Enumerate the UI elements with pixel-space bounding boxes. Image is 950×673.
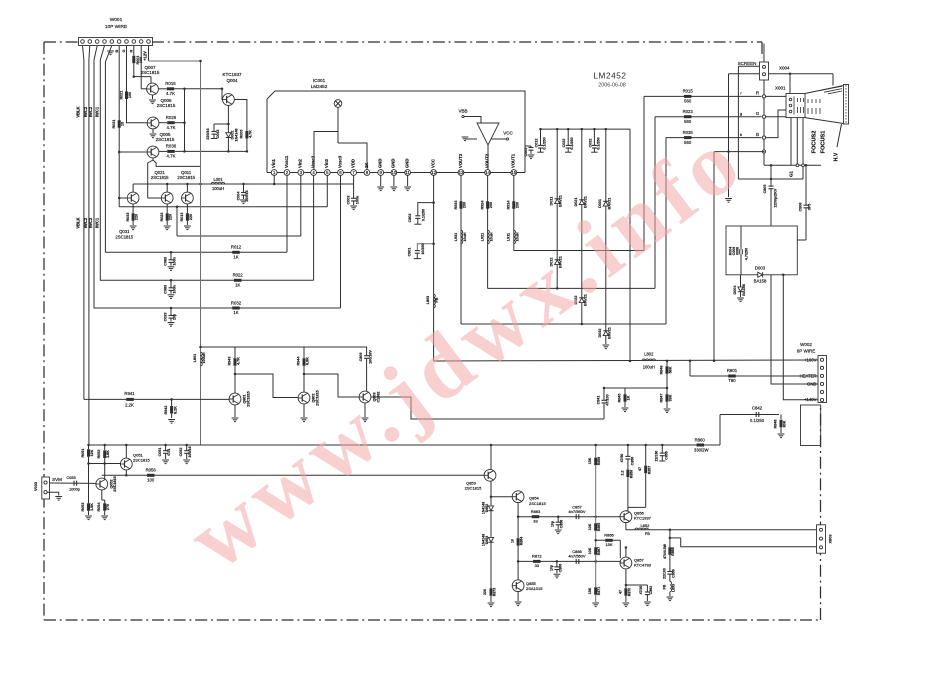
svg-text:10P WIRE: 10P WIRE — [105, 24, 127, 30]
svg-text:X803: X803 — [828, 534, 833, 544]
svg-text:220: 220 — [169, 214, 173, 220]
svg-text:IWC1: IWC1 — [95, 217, 100, 228]
svg-text:47/20: 47/20 — [639, 586, 643, 595]
svg-text:Q854: Q854 — [529, 496, 540, 501]
svg-text:R846: R846 — [660, 366, 664, 375]
svg-text:R873: R873 — [493, 588, 497, 596]
svg-text:10p: 10p — [551, 521, 555, 527]
svg-text:SVM: SVM — [52, 477, 62, 482]
svg-text:47/100: 47/100 — [606, 394, 610, 405]
svg-text:2.2: 2.2 — [620, 471, 624, 476]
svg-text:100: 100 — [128, 92, 132, 98]
svg-text:100uH: 100uH — [202, 352, 206, 363]
svg-text:R021: R021 — [120, 91, 124, 100]
svg-text:GND: GND — [807, 382, 816, 387]
svg-text:47/50: 47/50 — [620, 454, 624, 463]
svg-text:R924: R924 — [480, 200, 484, 210]
svg-text:L801: L801 — [193, 354, 197, 362]
svg-text:R865: R865 — [597, 523, 601, 531]
svg-text:C805: C805 — [763, 185, 767, 194]
svg-text:C809: C809 — [359, 353, 363, 362]
svg-text:470/0.5W: 470/0.5W — [663, 543, 667, 559]
svg-text:1N4148: 1N4148 — [234, 129, 238, 142]
svg-text:T80: T80 — [728, 378, 736, 383]
svg-text:10uH: 10uH — [516, 232, 520, 241]
svg-text:220: 220 — [189, 214, 193, 220]
svg-text:33: 33 — [533, 519, 538, 524]
svg-text:C801: C801 — [408, 248, 412, 257]
svg-text:220: 220 — [135, 214, 139, 220]
svg-text:4n7/560V: 4n7/560V — [568, 554, 585, 559]
svg-text:C022: C022 — [562, 139, 566, 148]
svg-text:C806: C806 — [799, 203, 803, 212]
svg-text:4.7K: 4.7K — [248, 130, 252, 138]
svg-text:15: 15 — [511, 170, 516, 175]
svg-text:BA158: BA158 — [754, 279, 767, 284]
svg-text:560: 560 — [684, 99, 692, 104]
svg-text:G: G — [122, 49, 126, 52]
svg-text:2SC1815: 2SC1815 — [157, 103, 176, 108]
svg-text:VBLK: VBLK — [76, 217, 81, 228]
svg-text:R031: R031 — [112, 120, 116, 129]
svg-text:8.2K: 8.2K — [173, 406, 177, 414]
svg-text:0068: 0068 — [735, 247, 739, 255]
svg-text:C043: C043 — [216, 130, 220, 139]
svg-text:R934: R934 — [454, 200, 458, 210]
svg-text:L852: L852 — [640, 523, 650, 528]
svg-text:Vin1: Vin1 — [271, 158, 276, 168]
svg-text:C842: C842 — [752, 406, 763, 411]
svg-text:10: 10 — [392, 170, 397, 175]
svg-text:6P WIRE: 6P WIRE — [797, 349, 815, 354]
svg-text:R052: R052 — [97, 450, 101, 459]
svg-text:L803: L803 — [426, 296, 430, 304]
svg-text:R023: R023 — [683, 109, 694, 114]
svg-text:X004: X004 — [779, 66, 790, 71]
svg-text:2SC1815: 2SC1815 — [113, 476, 117, 491]
svg-text:BAV21: BAV21 — [559, 195, 563, 207]
svg-text:2006-06-08: 2006-06-08 — [598, 83, 626, 89]
svg-text:0.1/250: 0.1/250 — [422, 209, 426, 221]
svg-text:R033: R033 — [126, 213, 130, 222]
svg-text:C053: C053 — [66, 475, 75, 480]
svg-text:Vosc3: Vosc3 — [337, 155, 342, 168]
svg-text:1K: 1K — [235, 282, 240, 287]
svg-text:10uH: 10uH — [489, 232, 493, 241]
svg-text:D032: D032 — [598, 329, 602, 338]
svg-text:R022: R022 — [233, 273, 244, 278]
svg-text:C841: C841 — [596, 396, 600, 405]
svg-text:R848: R848 — [773, 420, 777, 429]
svg-text:R023: R023 — [160, 213, 164, 222]
svg-text:Vin2: Vin2 — [298, 158, 303, 168]
svg-text:R845: R845 — [618, 394, 622, 403]
svg-text:BA158: BA158 — [742, 284, 746, 295]
svg-text:C855: C855 — [664, 451, 668, 459]
svg-text:2SC1815: 2SC1815 — [151, 175, 169, 180]
svg-text:12: 12 — [431, 170, 436, 175]
svg-text:100n: 100n — [173, 284, 177, 293]
svg-text:4.7/250: 4.7/250 — [745, 248, 749, 260]
svg-text:12K: 12K — [90, 449, 94, 456]
svg-text:R005: R005 — [239, 130, 243, 139]
svg-text:22/100: 22/100 — [662, 568, 666, 579]
svg-text:2200p/2KV: 2200p/2KV — [773, 188, 777, 207]
svg-text:D011: D011 — [550, 197, 554, 206]
svg-text:X001: X001 — [775, 86, 786, 91]
svg-text:2SC1815: 2SC1815 — [156, 137, 175, 142]
svg-text:C012: C012 — [535, 139, 539, 148]
svg-text:Q031: Q031 — [119, 229, 130, 234]
svg-text:2SC1815: 2SC1815 — [465, 486, 482, 491]
svg-text:R858: R858 — [629, 470, 633, 478]
svg-text:15K: 15K — [588, 587, 592, 594]
svg-text:C032: C032 — [588, 139, 592, 148]
svg-text:R944: R944 — [297, 356, 301, 366]
svg-text:FOCUS2: FOCUS2 — [812, 131, 818, 154]
svg-text:R015: R015 — [683, 89, 694, 94]
svg-text:R026: R026 — [166, 115, 177, 120]
svg-text:GND: GND — [391, 159, 396, 168]
svg-text:BAV21: BAV21 — [607, 327, 611, 339]
svg-text:330/2W: 330/2W — [694, 447, 709, 452]
svg-text:C004: C004 — [237, 191, 241, 201]
svg-text:D004: D004 — [733, 285, 737, 295]
svg-text:10p: 10p — [173, 313, 177, 320]
svg-text:1000p: 1000p — [69, 486, 80, 491]
svg-text:15K: 15K — [605, 542, 612, 547]
svg-text:L921: L921 — [480, 233, 484, 241]
svg-text:GND: GND — [378, 159, 383, 168]
svg-text:10uH: 10uH — [463, 232, 467, 241]
svg-text:C856: C856 — [630, 457, 634, 465]
svg-text:Q004: Q004 — [226, 78, 238, 83]
svg-text:10K: 10K — [588, 547, 592, 554]
svg-text:Vosc2: Vosc2 — [310, 155, 315, 168]
svg-text:R872: R872 — [532, 554, 542, 559]
svg-text:47: 47 — [638, 467, 642, 471]
svg-text:C866: C866 — [558, 564, 562, 572]
svg-text:L853: L853 — [672, 584, 676, 592]
svg-text:H.V: H.V — [834, 152, 840, 161]
svg-text:270: 270 — [106, 504, 110, 510]
svg-text:4.7K: 4.7K — [167, 154, 176, 159]
svg-text:C033: C033 — [164, 313, 168, 322]
svg-text:100n: 100n — [355, 195, 359, 204]
svg-text:GND: GND — [404, 159, 409, 168]
svg-text:33K: 33K — [669, 394, 673, 401]
svg-text:VOUT1: VOUT1 — [511, 153, 516, 168]
svg-text:R942: R942 — [164, 406, 168, 415]
svg-text:+140V: +140V — [804, 397, 817, 402]
svg-text:KTC1937: KTC1937 — [222, 72, 242, 77]
svg-text:3P5: 3P5 — [808, 204, 812, 211]
svg-text:1K: 1K — [233, 254, 238, 259]
svg-text:L001: L001 — [213, 177, 223, 182]
svg-text:0.1/250: 0.1/250 — [570, 137, 574, 149]
svg-text:220/16: 220/16 — [206, 128, 210, 139]
svg-text:IWC2: IWC2 — [88, 217, 93, 228]
svg-text:g: g — [740, 111, 742, 116]
svg-text:2SC1815: 2SC1815 — [115, 235, 133, 240]
svg-text:0.01: 0.01 — [167, 448, 171, 455]
svg-text:R054: R054 — [97, 502, 101, 512]
svg-text:B: B — [115, 49, 119, 52]
svg-text:VCC: VCC — [503, 131, 513, 136]
svg-text:R943: R943 — [228, 357, 232, 366]
svg-text:KTC1937: KTC1937 — [634, 516, 652, 521]
svg-text:SCREEN: SCREEN — [738, 61, 757, 66]
svg-text:R863: R863 — [531, 509, 541, 514]
svg-text:VBB: VBB — [458, 109, 467, 114]
svg-text:D003: D003 — [755, 266, 766, 271]
svg-text:100/16: 100/16 — [188, 446, 192, 457]
svg-text:R867: R867 — [597, 547, 601, 555]
svg-text:C052: C052 — [179, 448, 183, 457]
svg-text:4.7K: 4.7K — [166, 91, 175, 96]
svg-text:1K: 1K — [233, 310, 238, 315]
svg-text:4.7K: 4.7K — [167, 125, 176, 130]
svg-text:R053: R053 — [81, 503, 85, 512]
svg-text:IWC1: IWC1 — [95, 106, 100, 117]
svg-text:R857: R857 — [648, 466, 652, 474]
svg-text:LM2452: LM2452 — [311, 84, 328, 89]
svg-text:L931: L931 — [454, 233, 458, 241]
svg-text:0.1/250: 0.1/250 — [750, 418, 765, 423]
svg-text:G1: G1 — [789, 171, 794, 178]
svg-text:W002: W002 — [800, 342, 812, 347]
svg-text:R051: R051 — [81, 449, 85, 458]
svg-text:1.8K: 1.8K — [106, 450, 110, 458]
svg-text:Vin3: Vin3 — [324, 158, 329, 168]
svg-text:200: 200 — [515, 202, 519, 208]
svg-text:13: 13 — [459, 170, 464, 175]
svg-text:R914: R914 — [507, 200, 511, 210]
svg-text:1K: 1K — [627, 395, 631, 400]
svg-text:2.2K: 2.2K — [125, 402, 134, 407]
svg-text:100: 100 — [147, 477, 155, 482]
svg-text:4n7/560V: 4n7/560V — [568, 509, 585, 514]
svg-text:47: 47 — [618, 590, 622, 594]
svg-text:C858: C858 — [560, 520, 564, 528]
svg-text:1.5K: 1.5K — [90, 503, 94, 511]
svg-text:VDD: VDD — [350, 159, 355, 168]
svg-text:10K: 10K — [588, 523, 592, 530]
svg-text:C051: C051 — [158, 448, 162, 457]
svg-text:2SC1815: 2SC1815 — [529, 501, 546, 506]
svg-text:R864: R864 — [520, 537, 524, 545]
svg-text:W001: W001 — [110, 17, 123, 23]
svg-text:R868: R868 — [671, 547, 675, 555]
svg-text:2SC1815: 2SC1815 — [141, 70, 160, 75]
svg-text:R012: R012 — [231, 245, 242, 250]
svg-text:VBLK: VBLK — [76, 106, 81, 117]
svg-text:1K: 1K — [364, 162, 369, 168]
svg-text:200: 200 — [463, 202, 467, 208]
svg-text:56K: 56K — [669, 366, 673, 373]
svg-text:2SA1015: 2SA1015 — [526, 586, 543, 591]
svg-text:80K: 80K — [783, 420, 787, 427]
svg-text:L911: L911 — [507, 233, 511, 241]
svg-text:R801: R801 — [727, 368, 738, 373]
svg-text:0.1/250: 0.1/250 — [543, 137, 547, 149]
svg-text:100uH: 100uH — [643, 364, 655, 369]
svg-text:200: 200 — [489, 202, 493, 208]
svg-text:33: 33 — [535, 563, 540, 568]
svg-text:R859: R859 — [597, 457, 601, 465]
svg-text:2SC1815: 2SC1815 — [133, 458, 150, 463]
svg-text:R866: R866 — [604, 532, 614, 537]
svg-text:IWC2: IWC2 — [88, 106, 93, 117]
svg-text:R941: R941 — [124, 391, 135, 396]
svg-text:KTC4793: KTC4793 — [634, 563, 652, 568]
svg-text:2SC1815: 2SC1815 — [246, 391, 250, 406]
svg-text:15K: 15K — [588, 457, 592, 464]
svg-text:10/250: 10/250 — [421, 243, 425, 254]
svg-text:C083: C083 — [164, 285, 168, 294]
svg-text:D852: D852 — [485, 504, 489, 512]
svg-text:B: B — [756, 132, 759, 137]
svg-text:FB: FB — [645, 531, 650, 536]
svg-text:R870: R870 — [627, 588, 631, 596]
svg-text:10: 10 — [121, 122, 125, 126]
svg-text:L802: L802 — [644, 351, 654, 356]
svg-text:R056: R056 — [146, 468, 157, 473]
svg-text:VOUT3: VOUT3 — [458, 153, 463, 168]
svg-text:R036: R036 — [166, 144, 177, 149]
svg-text:D853: D853 — [485, 536, 489, 544]
svg-text:100uH: 100uH — [212, 186, 224, 191]
svg-text:C002: C002 — [524, 148, 528, 157]
svg-text:FB: FB — [663, 584, 667, 589]
svg-text:b: b — [740, 132, 742, 137]
svg-text:LM2452: LM2452 — [593, 72, 626, 81]
svg-text:2SC1815: 2SC1815 — [177, 175, 195, 180]
svg-text:0.1/250: 0.1/250 — [596, 137, 600, 149]
svg-text:10: 10 — [511, 539, 515, 543]
svg-text:10p: 10p — [549, 565, 553, 571]
svg-text:IC001: IC001 — [313, 78, 326, 83]
svg-text:C802: C802 — [408, 214, 412, 223]
svg-text:G: G — [756, 111, 760, 116]
svg-text:6.8K: 6.8K — [306, 357, 310, 365]
svg-text:C859: C859 — [672, 569, 676, 577]
svg-text:C862: C862 — [649, 586, 653, 594]
svg-text:R: R — [130, 49, 134, 52]
svg-text:FOCUS1: FOCUS1 — [821, 131, 827, 154]
svg-text:100n: 100n — [173, 256, 177, 265]
svg-text:R871: R871 — [597, 587, 601, 595]
svg-text:11: 11 — [405, 170, 410, 175]
svg-text:4.7K: 4.7K — [237, 357, 241, 365]
svg-text:Vosc1: Vosc1 — [284, 155, 289, 168]
svg-text:VCC: VCC — [430, 159, 435, 168]
svg-text:R013: R013 — [180, 213, 184, 222]
svg-text:14: 14 — [485, 170, 490, 175]
svg-text:C003: C003 — [346, 196, 350, 205]
svg-text:R032: R032 — [231, 300, 242, 305]
svg-text:R016: R016 — [165, 81, 176, 86]
svg-text:FB: FB — [435, 297, 439, 302]
svg-text:VOUT2: VOUT2 — [484, 153, 489, 168]
svg-text:+12V: +12V — [143, 51, 148, 61]
svg-text:220: 220 — [483, 589, 487, 595]
svg-text:V003: V003 — [33, 481, 38, 491]
svg-text:22/160: 22/160 — [654, 451, 658, 462]
svg-text:C063: C063 — [164, 257, 168, 266]
svg-text:220/16: 220/16 — [245, 190, 249, 201]
svg-text:R847: R847 — [660, 394, 664, 403]
svg-text:R860: R860 — [695, 437, 706, 442]
